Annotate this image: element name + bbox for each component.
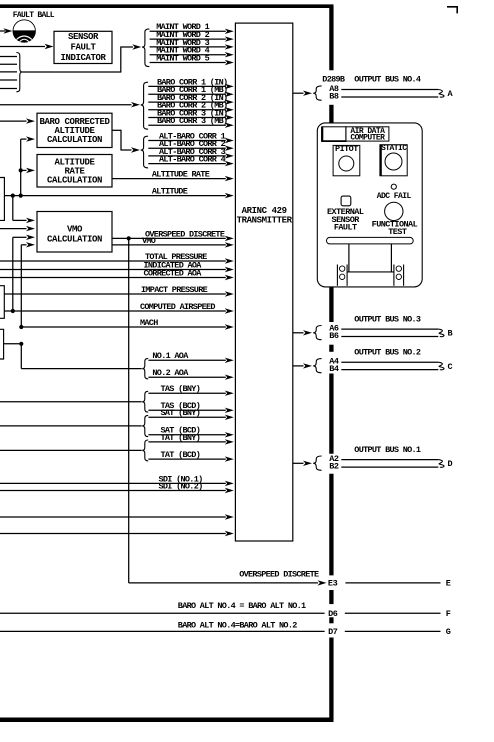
output bus no.1 connector brace [313, 456, 321, 470]
TAT fan brace [142, 440, 148, 461]
wire transmitter to output bus no.2 connector [293, 363, 312, 368]
label FUNCTIONAL TEST [372, 220, 418, 237]
wire SDI (NO.2) [0, 481, 234, 493]
svg-text:B6: B6 [329, 331, 339, 341]
unlabeled wire 1 into transmitter [0, 514, 234, 519]
partial box at left edge (pressure source) [0, 286, 4, 319]
wire baro alt no.4 = baro alt no.1 [0, 601, 325, 613]
wire ALTITUDE RATE [112, 170, 234, 182]
wire BARO CORR 2 (MB) [148, 101, 234, 113]
wire into baro corr fan [0, 102, 140, 107]
wire vertical down to aoa fan [21, 344, 141, 369]
wire baro corrected altitude calc to alt-baro fan [112, 130, 140, 153]
svg-text:MAINT WORD 5: MAINT WORD 5 [156, 53, 209, 63]
wire pin D6 to node F [345, 612, 441, 614]
box ARINC 429 TRANSMITTER [235, 23, 292, 541]
wire output bus no.3 line A [341, 328, 438, 330]
svg-text:SENSOR: SENSOR [68, 32, 99, 42]
pitot test button [333, 144, 360, 176]
wire into sensor fault indicator [0, 44, 54, 49]
svg-text:C: C [448, 362, 453, 372]
svg-text:D: D [448, 459, 453, 469]
wire MAINT WORD 5 [150, 53, 234, 65]
wire transmitter to output bus no.3 connector [293, 330, 312, 335]
svg-text:COMPUTED AIRSPEED: COMPUTED AIRSPEED [140, 302, 215, 312]
wire output bus no.1 line B [341, 466, 438, 468]
svg-text:MACH: MACH [140, 318, 158, 328]
maint word fan brace [142, 29, 149, 67]
wire aoa source to vertical [4, 343, 22, 345]
svg-text:IMPACT PRESSURE: IMPACT PRESSURE [141, 285, 208, 295]
wire altitude branch to vmo input 1 [13, 196, 35, 224]
adc fail lamp [391, 184, 396, 189]
svg-text:NO.2 AOA: NO.2 AOA [152, 368, 189, 378]
wire VMO [112, 236, 234, 248]
wire MACH [21, 318, 234, 330]
thick unit boundary top rail [0, 4, 334, 8]
wire BARO CORR 2 (IN) [148, 93, 234, 105]
box BARO CORRECTED ALTITUDE CALCULATION [37, 113, 112, 147]
svg-text:CALCULATION: CALCULATION [47, 234, 102, 244]
svg-text:ADC FAIL: ADC FAIL [377, 192, 412, 201]
wire baro alt no.4=baro alt no.2 [0, 620, 325, 631]
wire SAT (BCD) [148, 426, 233, 438]
wire pin E3 to node E [345, 582, 440, 584]
wire BARO CORR 3 (IN) [148, 108, 234, 120]
wire OVERSPEED DISCRETE from vmo [112, 229, 234, 241]
svg-text:ALTITUDE RATE: ALTITUDE RATE [152, 170, 210, 180]
wire output bus no.2 line A [341, 361, 438, 363]
wire TAT (BCD) [148, 450, 233, 462]
TAS fan brace [142, 391, 148, 412]
bundle wire 2 from left [0, 63, 17, 65]
svg-text:COMPUTER: COMPUTER [350, 133, 385, 142]
svg-text:STATIC: STATIC [381, 144, 407, 153]
svg-text:SDI (NO.2): SDI (NO.2) [159, 481, 203, 491]
svg-text:OUTPUT BUS NO.2: OUTPUT BUS NO.2 [354, 347, 421, 357]
output bus no.3 connector brace [313, 326, 321, 340]
svg-text:OVERSPEED DISCRETE: OVERSPEED DISCRETE [145, 229, 225, 239]
thick unit boundary right rail (gapped at connector pins) [329, 6, 333, 720]
blank placard [322, 127, 346, 142]
alt-baro corr fan brace [141, 136, 148, 168]
wire ALT-BARO CORR 3 [148, 147, 234, 159]
box VMO CALCULATION [37, 212, 112, 253]
left hold-down screw [337, 265, 347, 286]
wire into fault ball [0, 28, 12, 33]
wire into SAT fan [0, 425, 142, 427]
svg-text:VMO: VMO [142, 236, 156, 246]
wire COMPUTED AIRSPEED [4, 302, 234, 314]
junction dot altitude/branch-up [19, 194, 23, 198]
output bus no.4 connector brace [313, 86, 321, 100]
wire transmitter to output bus no.1 connector [293, 461, 312, 466]
label box AIR DATA COMPUTER [346, 127, 389, 143]
air data computer panel outline [317, 123, 422, 287]
label EXTERNAL SENSOR FAULT [327, 207, 364, 233]
svg-text:E3: E3 [328, 579, 338, 589]
svg-text:FAULT: FAULT [70, 43, 96, 53]
wire transmitter to output bus no.4 connector [293, 91, 312, 96]
wire pin D7 to node G [345, 630, 441, 632]
wire INDICATED AOA [0, 260, 234, 272]
wire mach branch to vmo input 4 [21, 242, 35, 327]
wire BARO CORR 3 (MB) [148, 116, 234, 128]
wire output bus no.4 line B [341, 96, 438, 98]
bundle wire 4 from left [0, 79, 17, 81]
static test button [380, 144, 407, 176]
output bus no.4 twisted pair end [438, 90, 444, 98]
svg-text:TEST: TEST [388, 227, 407, 237]
svg-text:INDICATOR: INDICATOR [60, 53, 106, 63]
svg-text:D6: D6 [328, 609, 338, 619]
svg-text:F: F [446, 609, 451, 619]
wire MAINT WORD 2 [150, 30, 234, 42]
svg-text:E: E [446, 579, 451, 589]
box ALTITUDE RATE CALCULATION [37, 155, 112, 188]
bundle wire 5 from left [0, 88, 17, 90]
svg-text:B8: B8 [329, 91, 339, 101]
wire into baro corrected altitude calc (top) [0, 118, 35, 123]
output bus no.1 twisted pair end [438, 460, 444, 468]
svg-text:FAULT: FAULT [334, 223, 357, 233]
wire MAINT WORD 4 [150, 46, 234, 58]
bundle wire 3 from left [0, 71, 17, 73]
svg-text:NO.1 AOA: NO.1 AOA [152, 351, 189, 361]
svg-text:ALTITUDE: ALTITUDE [152, 187, 188, 197]
unlabeled wire 2 into transmitter [0, 531, 234, 536]
fault ball indicator [13, 20, 36, 42]
wire into altitude rate calc [21, 168, 35, 173]
junction dot aoa source [19, 342, 23, 346]
wire NO.1 AOA [148, 351, 233, 363]
wire overspeed discrete to pin E3 [129, 238, 327, 585]
wire into TAT fan [0, 449, 142, 451]
svg-text:ALT-BARO CORR 4: ALT-BARO CORR 4 [159, 155, 226, 165]
svg-text:B2: B2 [329, 461, 339, 471]
svg-text:BARO ALT NO.4=BARO ALT NO.2: BARO ALT NO.4=BARO ALT NO.2 [178, 620, 297, 630]
partial box at left edge (aoa source) [0, 329, 4, 359]
wire into TAS fan [0, 401, 142, 403]
wire SAT (BNY) [148, 408, 233, 420]
svg-text:BARO ALT NO.4 = BARO ALT NO.1: BARO ALT NO.4 = BARO ALT NO.1 [178, 601, 306, 611]
border corner mark top-right [447, 7, 457, 14]
svg-text:OUTPUT BUS NO.4: OUTPUT BUS NO.4 [354, 75, 421, 85]
svg-text:TAT (BCD): TAT (BCD) [161, 450, 201, 460]
svg-text:TAS (BNY): TAS (BNY) [161, 384, 201, 394]
wire altitude branch up to baro corrected altitude calc [21, 136, 35, 195]
baro corr fan brace [141, 82, 148, 129]
wire output bus no.2 line B [341, 369, 438, 371]
svg-text:CORRECTED AOA: CORRECTED AOA [144, 268, 203, 278]
svg-text:CALCULATION: CALCULATION [47, 176, 102, 186]
wire CORRECTED AOA [0, 268, 234, 280]
panel handle [327, 237, 414, 244]
svg-text:BARO CORR 3 (MB): BARO CORR 3 (MB) [157, 116, 227, 126]
wire BARO CORR 1 (MB) [148, 85, 234, 97]
svg-text:G: G [446, 627, 451, 637]
wire computed airspeed branch to vmo input 3 [13, 235, 35, 311]
bundle gathering brace [16, 53, 22, 92]
svg-text:FAULT BALL: FAULT BALL [13, 11, 55, 20]
svg-text:B: B [448, 329, 453, 339]
wire IMPACT PRESSURE [4, 285, 234, 297]
external sensor fault indicator [341, 196, 351, 206]
wire ALT-BARO CORR 4 [148, 155, 234, 167]
wire MAINT WORD 1 [150, 22, 234, 34]
svg-text:SAT (BNY): SAT (BNY) [161, 408, 201, 418]
wire ALT-BARO CORR 1 [148, 131, 234, 143]
junction dot overspeed branch [127, 236, 131, 240]
wire SDI (NO.1) [0, 474, 234, 486]
svg-text:CALCULATION: CALCULATION [47, 135, 102, 145]
right hold-down screw [394, 265, 404, 286]
SAT fan brace [142, 415, 148, 436]
wire output bus no.4 line A [341, 89, 438, 91]
wire NO.2 AOA [148, 368, 233, 380]
bundle wire 1 from left [0, 56, 17, 58]
wire TAT (BNY) [148, 433, 233, 445]
box SENSOR FAULT INDICATOR [54, 31, 112, 63]
wire ALT-BARO CORR 2 [148, 139, 234, 151]
aoa fan brace [142, 358, 148, 379]
output bus no.3 twisted pair end [438, 329, 444, 337]
junction dot altitude branch to rate calc [19, 168, 23, 172]
svg-text:VMO: VMO [67, 224, 83, 234]
output bus no.2 connector brace [313, 359, 321, 373]
handle right leg [390, 244, 392, 272]
svg-text:D7: D7 [328, 627, 338, 637]
junction dot mach branch [19, 325, 23, 329]
handle left leg [348, 244, 350, 272]
svg-text:TRANSMITTER: TRANSMITTER [237, 215, 293, 225]
output bus no.2 twisted pair end [438, 362, 444, 370]
wire output bus no.3 line B [341, 336, 438, 338]
partial box at left edge (altitude source) [0, 178, 4, 221]
wire TOTAL PRESSURE [0, 252, 234, 264]
wire MAINT WORD 3 [150, 38, 234, 50]
svg-text:PITOT: PITOT [335, 144, 358, 154]
svg-text:TAT (BNY): TAT (BNY) [161, 433, 201, 443]
wire TAS (BCD) [148, 401, 233, 413]
junction dot altitude/vmo1 [11, 194, 15, 198]
svg-text:OUTPUT BUS NO.3: OUTPUT BUS NO.3 [354, 314, 421, 324]
junction dot computed airspeed branch [11, 309, 15, 313]
wire TAS (BNY) [148, 384, 233, 396]
svg-text:OVERSPEED DISCRETE: OVERSPEED DISCRETE [239, 569, 319, 579]
wire output bus no.1 line A [341, 459, 438, 461]
functional test button [385, 202, 403, 220]
thick unit boundary bottom rail [0, 718, 334, 723]
wire ALTITUDE [4, 187, 233, 199]
leg cross bar [347, 271, 394, 273]
svg-text:B4: B4 [329, 364, 339, 374]
wire into vmo input 2 [0, 226, 35, 231]
wire BARO CORR 1 (IN) [148, 77, 234, 89]
wire bundle to maint brace [23, 44, 142, 72]
svg-text:OUTPUT BUS NO.1: OUTPUT BUS NO.1 [354, 445, 421, 455]
